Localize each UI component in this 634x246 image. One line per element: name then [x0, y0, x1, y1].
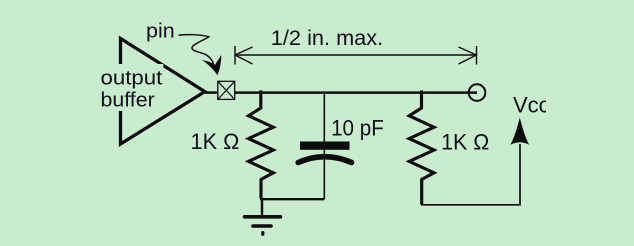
op-amp U1 (output buffer triangle): [121, 39, 205, 145]
dimension line "1/2 in. max.": [235, 46, 477, 65]
label occluder for output buffer text: [99, 64, 163, 111]
Vcc arrowhead: [510, 118, 529, 145]
resistor R2: [409, 90, 434, 204]
pin symbol X1 (crossed box): [218, 81, 235, 99]
capacitor C1 top plate: [300, 142, 350, 150]
ground: [245, 217, 281, 234]
svg-text:10 pF: 10 pF: [331, 115, 384, 140]
wire down to ground: [261, 198, 264, 216]
terminal circle (node): [469, 84, 486, 101]
main wire (pin to terminal): [235, 91, 477, 94]
svg-text:pin: pin: [146, 20, 175, 42]
occluder clipping right part of Vcc: [546, 90, 566, 116]
capacitor C1 lead: [323, 93, 325, 200]
pin leader arrow (curved): [179, 35, 222, 76]
capacitor C1 bottom plate (curved): [298, 157, 351, 163]
svg-text:1K Ω: 1K Ω: [441, 129, 489, 154]
svg-text:1K Ω: 1K Ω: [191, 129, 240, 154]
wire R2 bottom to Vcc riser: [421, 144, 520, 205]
svg-text:Vcc: Vcc: [513, 92, 550, 117]
resistor R1: [249, 90, 274, 199]
svg-text:1/2 in. max.: 1/2 in. max.: [271, 26, 383, 50]
wire from op-amp output to pin: [205, 91, 219, 94]
svg-text:buffer: buffer: [101, 89, 156, 111]
wire R1 bottom to capacitor bottom: [260, 198, 324, 200]
svg-text:output: output: [101, 67, 163, 89]
